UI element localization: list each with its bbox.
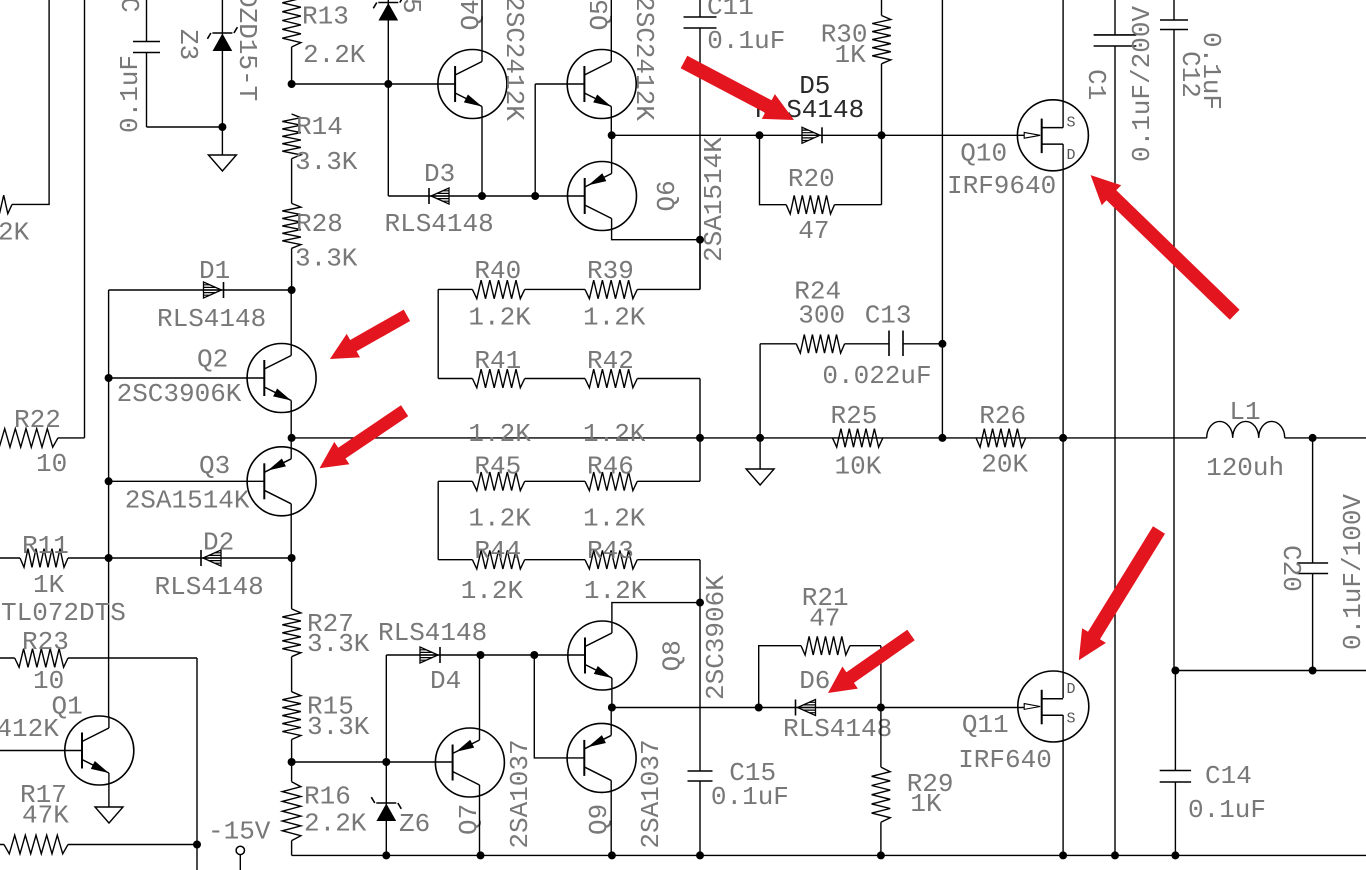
transistor Q6 (568, 162, 637, 231)
svg-text:R25: R25 (831, 401, 878, 431)
svg-text:R41: R41 (474, 346, 521, 376)
svg-text:R14: R14 (296, 112, 343, 142)
wire R41 row (438, 379, 700, 438)
junction R13/R14/base wire (288, 80, 296, 88)
svg-text:RLS4148: RLS4148 (157, 304, 266, 334)
svg-text:2SC3906K: 2SC3906K (701, 575, 731, 700)
svg-text:C: C (114, 0, 144, 13)
junction cap/Z3 (218, 123, 226, 131)
wire Q6 emitter lead (611, 135, 613, 173)
wire Q4 base net (292, 83, 456, 85)
resistor R43 (585, 550, 637, 569)
wire Q11 source rail (1062, 715, 1064, 855)
svg-text:R26: R26 (979, 401, 1026, 431)
svg-text:20K: 20K (981, 449, 1028, 479)
svg-text:R42: R42 (587, 346, 634, 376)
svg-text:2.2K: 2.2K (303, 40, 366, 70)
transistor Q1 (65, 716, 134, 785)
junction Q8 collector node (696, 599, 704, 607)
junction Q7 base crossing (382, 758, 390, 766)
wire left feedback vertical (84, 0, 86, 438)
svg-text:Q10: Q10 (960, 138, 1007, 168)
svg-text:Q9: Q9 (584, 804, 614, 835)
diode D2 (203, 550, 221, 566)
junction Q11 bottom rail (1059, 851, 1067, 859)
svg-text:0.1uF/100V: 0.1uF/100V (1338, 494, 1366, 650)
svg-text:0.1uF/200V: 0.1uF/200V (1127, 6, 1157, 162)
wire R40/R41 left link (437, 289, 439, 378)
red arrow at Q11 (1079, 526, 1165, 660)
junction Z6 bottom rail (382, 851, 390, 859)
svg-text:10: 10 (36, 449, 67, 479)
svg-text:3.3K: 3.3K (295, 244, 358, 274)
svg-text:R13: R13 (302, 2, 349, 32)
svg-text:2SC2412K: 2SC2412K (629, 0, 659, 121)
resistor R44 (472, 550, 524, 569)
junction Q2 base (105, 374, 113, 382)
svg-text:47: 47 (798, 216, 829, 246)
svg-text:D1: D1 (199, 256, 230, 286)
svg-text:RLS4148: RLS4148 (385, 209, 494, 239)
resistor R22 (0, 429, 58, 448)
resistor R41 (472, 369, 524, 388)
svg-text:DZD15-T: DZD15-T (232, 0, 262, 101)
junction Q8/Q9 base node (530, 651, 538, 659)
capacitor C13 (889, 331, 903, 357)
svg-text:Z3: Z3 (173, 29, 203, 60)
junction R17/vertical (193, 841, 201, 849)
wire Q10 source rail (1062, 0, 1064, 128)
svg-text:2SC2412K: 2SC2412K (0, 714, 59, 744)
wire D4 net (386, 654, 584, 656)
resistor R20 (760, 135, 882, 204)
svg-text:2SA1514K: 2SA1514K (125, 485, 250, 515)
wire Q2 emitter lead (290, 401, 292, 438)
svg-text:R22: R22 (14, 405, 61, 435)
resistor R17 (0, 844, 197, 846)
svg-text:D: D (1067, 681, 1076, 698)
junction R15/R16/Q7 base (288, 758, 296, 766)
svg-text:C13: C13 (865, 300, 912, 330)
junction Q3/D2 (288, 554, 296, 562)
junction L1/C20 (1309, 434, 1317, 442)
svg-text:R23: R23 (22, 627, 69, 657)
svg-text:1.2K: 1.2K (583, 302, 646, 332)
ground below Z3 (208, 155, 236, 171)
junction C13/branch node (938, 340, 946, 348)
red arrow at Q3 (320, 405, 409, 468)
svg-text:RLS4148: RLS4148 (155, 572, 264, 602)
svg-text:0.1uF: 0.1uF (707, 26, 785, 56)
svg-text:0.1uF: 0.1uF (1196, 32, 1226, 110)
wire R44 row (438, 560, 700, 603)
svg-text:1K: 1K (835, 40, 867, 70)
capacitor C15 (688, 771, 713, 781)
diode D1 (204, 282, 222, 298)
junction C15 bottom rail (696, 851, 704, 859)
svg-text:1.2K: 1.2K (583, 504, 646, 534)
wire top-left corner net (12, 0, 49, 204)
svg-text:47K: 47K (22, 800, 69, 830)
resistor R26 (976, 429, 1026, 448)
svg-text:D3: D3 (424, 159, 455, 189)
wire Q2 base (109, 377, 265, 379)
svg-text:D4: D4 (430, 666, 461, 696)
svg-text:Q2: Q2 (197, 345, 228, 375)
junction Q6 collector node (696, 236, 704, 244)
svg-text:47: 47 (809, 603, 840, 633)
svg-text:IRF640: IRF640 (958, 745, 1052, 775)
svg-text:TL072DTS: TL072DTS (1, 598, 126, 628)
svg-text:RLS4148: RLS4148 (378, 618, 487, 648)
svg-text:1.2K: 1.2K (468, 302, 531, 332)
svg-text:0.1uF: 0.1uF (115, 55, 145, 133)
transistor Q5 (567, 50, 636, 119)
wire D2 net (110, 557, 292, 559)
wire branch vertical (941, 0, 943, 438)
svg-text:1K: 1K (910, 789, 942, 819)
svg-text:S: S (1067, 115, 1076, 132)
svg-text:D6: D6 (799, 666, 830, 696)
svg-text:1.2K: 1.2K (468, 419, 531, 449)
svg-text:0.022uF: 0.022uF (822, 361, 931, 391)
junction C20 bottom node (1309, 667, 1317, 675)
svg-text:0.1uF: 0.1uF (711, 782, 789, 812)
junction Q8/Q9 output node (608, 704, 616, 712)
wire D1 net (109, 289, 292, 291)
red arrow at Q2 (330, 310, 410, 359)
wire Q7 top lead (479, 655, 481, 740)
svg-text:R11: R11 (22, 531, 69, 561)
svg-text:R28: R28 (296, 209, 343, 239)
svg-text:D: D (1067, 147, 1076, 164)
svg-text:Q3: Q3 (199, 451, 230, 481)
svg-text:C14: C14 (1205, 761, 1252, 791)
svg-text:2.2K: 2.2K (304, 809, 367, 839)
wire zobel bottom net (1175, 670, 1366, 672)
junction D5 right node (878, 131, 886, 139)
wire left bus vertical (108, 290, 110, 716)
resistor R39 (585, 280, 637, 299)
svg-text:R16: R16 (304, 781, 351, 811)
wire R45/R44 left link (437, 481, 439, 559)
zener Z6 (377, 805, 395, 821)
svg-text:2SA1037: 2SA1037 (636, 739, 666, 848)
junction Q7 bottom rail (477, 851, 485, 859)
wire R43 chain to C15 (699, 603, 701, 771)
ground below R25 net (746, 469, 774, 485)
diode D4 (420, 647, 438, 663)
diode D5 (802, 127, 820, 143)
wire Q9 emitter lead (610, 708, 612, 736)
diode D6 (798, 700, 816, 716)
svg-text:Q11: Q11 (962, 710, 1009, 740)
wire Q9 collector lead (610, 780, 612, 855)
junction output/drain rail (1059, 434, 1067, 442)
transistor Q7 (435, 728, 504, 797)
wire Q3 base (109, 480, 265, 482)
wire Q6 collector lead (612, 219, 700, 240)
wire R24 C13 branch (760, 344, 942, 438)
wire gate drive vertical (196, 658, 198, 870)
svg-text:C11: C11 (707, 0, 754, 22)
svg-text:1.2K: 1.2K (468, 504, 531, 534)
junction C1 bottom rail (1111, 851, 1119, 859)
svg-text:R20: R20 (788, 164, 835, 194)
wire Q5 collector lead (610, 0, 612, 62)
junction Q5 base/D3 net (531, 192, 539, 200)
wire Q1 emitter lead (108, 773, 110, 807)
svg-text:1.2K: 1.2K (461, 576, 524, 606)
wire R45 row (438, 438, 700, 481)
junction Q7 top node (477, 651, 485, 659)
svg-text:3.3K: 3.3K (307, 712, 370, 742)
junction D6 left node (755, 704, 763, 712)
wire main output net (292, 437, 1366, 439)
resistor R40 (472, 280, 524, 299)
resistor R16 (282, 782, 301, 841)
svg-text:C20: C20 (1276, 545, 1306, 592)
wire R40 row (438, 240, 700, 290)
resistor R29 (880, 708, 882, 856)
resistor 2K (cut) (0, 195, 12, 214)
capacitor C11 (699, 0, 701, 289)
svg-text:D2: D2 (203, 528, 234, 558)
svg-text:Q5: Q5 (585, 0, 615, 31)
red arrow at Q10 (1091, 175, 1240, 320)
svg-text:IRF9640: IRF9640 (947, 171, 1056, 201)
junction C12/C14 node (1171, 667, 1179, 675)
wire VAS output net (612, 134, 1024, 136)
wire cap to Z3 node (147, 126, 223, 128)
svg-text:-15V: -15V (208, 817, 271, 847)
svg-text:2SC3906K: 2SC3906K (117, 379, 242, 409)
svg-text:0.1uF: 0.1uF (1188, 795, 1266, 825)
junction D6 right node (877, 704, 885, 712)
red arrow at D6 (828, 630, 915, 693)
svg-text:1.2K: 1.2K (583, 419, 646, 449)
wire Q3 emitter lead (290, 438, 292, 459)
svg-text:10K: 10K (835, 451, 882, 481)
svg-text:L1: L1 (1229, 397, 1260, 427)
svg-text:2SA1514K: 2SA1514K (699, 137, 729, 262)
svg-text:120uh: 120uh (1206, 453, 1284, 483)
junction R29 bottom rail (877, 851, 885, 859)
junction Q5/Q6 emitters (608, 131, 616, 139)
capacitor C14 (1174, 671, 1176, 856)
resistor R28 (282, 203, 301, 248)
transistor Q4 (438, 50, 507, 119)
transistor Q2 (247, 344, 316, 413)
svg-text:2K: 2K (0, 218, 30, 248)
wire D4 drop vertical (385, 655, 387, 855)
svg-text:Q6: Q6 (652, 180, 682, 211)
resistor R13 (282, 0, 301, 47)
wire gate drive net low (612, 707, 1024, 709)
resistor R42 (585, 369, 637, 388)
svg-text:2SA1037: 2SA1037 (505, 739, 535, 848)
svg-text:1.2K: 1.2K (584, 576, 647, 606)
wire Q8 emitter lead (611, 678, 613, 708)
capacitor C12 (1173, 0, 1175, 671)
svg-text:Q8: Q8 (658, 640, 688, 671)
svg-text:R40: R40 (474, 256, 521, 286)
mosfet Q11 (1018, 671, 1089, 742)
wire Q4 emitter lead (481, 107, 483, 197)
transistor Q8 (568, 621, 637, 690)
inductor L1 (1207, 421, 1285, 438)
junction C14 bottom rail (1171, 851, 1179, 859)
svg-text:3.3K: 3.3K (295, 147, 358, 177)
wire D3 net (388, 195, 584, 197)
resistor R21 (759, 646, 881, 708)
svg-text:RLS4148: RLS4148 (783, 714, 892, 744)
resistor R15 (282, 692, 301, 740)
wire ground stem (759, 438, 761, 469)
svg-text:R44: R44 (474, 536, 521, 566)
junction D5 left node (756, 131, 764, 139)
junction Q3 base (105, 477, 113, 485)
diode D3 (431, 188, 449, 204)
transistor Q3 (247, 447, 316, 516)
red arrow at D5 (681, 56, 794, 120)
svg-text:Z6: Z6 (399, 809, 430, 839)
wire Q8 collector lead (612, 603, 700, 633)
resistor R23 (0, 657, 197, 659)
resistor R25 (833, 429, 883, 448)
capacitor 0.1uF top-left (146, 0, 148, 127)
wire Q10 drain to output (1062, 144, 1064, 698)
junction R42/R46/output (696, 434, 704, 442)
resistor R46 (585, 472, 637, 491)
ground below Q1 (95, 807, 123, 823)
svg-text:3.3K: 3.3K (307, 629, 370, 659)
resistor R24 (796, 335, 844, 354)
svg-text:2SC2412K: 2SC2412K (499, 0, 529, 121)
capacitor C1 (1114, 0, 1116, 855)
junction branch/output (938, 434, 946, 442)
resistor R14 (282, 114, 301, 159)
junction R28/D1/Q2 collector (288, 286, 296, 294)
junction R11/D2/bus (105, 554, 113, 562)
wire Q7 base net (292, 761, 453, 763)
capacitor C20 (1312, 438, 1314, 671)
wire Q7 bottom lead (479, 785, 481, 855)
svg-text:S: S (1067, 711, 1076, 728)
zener Z3 (221, 0, 223, 155)
svg-text:300: 300 (798, 300, 845, 330)
resistor R27 (282, 609, 301, 657)
resistor R11 (0, 557, 109, 559)
mosfet Q10 (1017, 100, 1088, 171)
wire bottom supply rail (292, 854, 1366, 856)
wire Q8/Q9 base link (534, 655, 584, 758)
svg-text:R45: R45 (474, 451, 521, 481)
wire Q3 collector lead (290, 504, 292, 558)
svg-text:1K: 1K (33, 570, 65, 600)
svg-text:C1: C1 (1081, 69, 1111, 100)
svg-text:R43: R43 (587, 536, 634, 566)
wire Q4 collector lead (481, 0, 483, 62)
svg-text:R46: R46 (587, 451, 634, 481)
junction Q9 bottom rail (608, 851, 616, 859)
junction Q4 emitter/D3 net (478, 192, 486, 200)
svg-text:R39: R39 (587, 256, 634, 286)
transistor Q9 (567, 723, 636, 792)
wire Q1 collector lead (108, 716, 110, 728)
zener Z5 top (387, 0, 389, 196)
junction R24 ground node (756, 434, 764, 442)
resistor R30 (881, 0, 883, 135)
junction zener/base wire (384, 80, 392, 88)
svg-text:5: 5 (396, 0, 426, 14)
wire Q5 base drop (535, 84, 585, 196)
wire R22 to vertical (58, 437, 85, 439)
resistor R45 (472, 472, 524, 491)
wire Q5 emitter lead (610, 107, 612, 136)
junction Q2/Q3 emitters output (288, 434, 296, 442)
wire Q1 base (0, 750, 82, 752)
wire Q2 collector lead (290, 290, 292, 356)
